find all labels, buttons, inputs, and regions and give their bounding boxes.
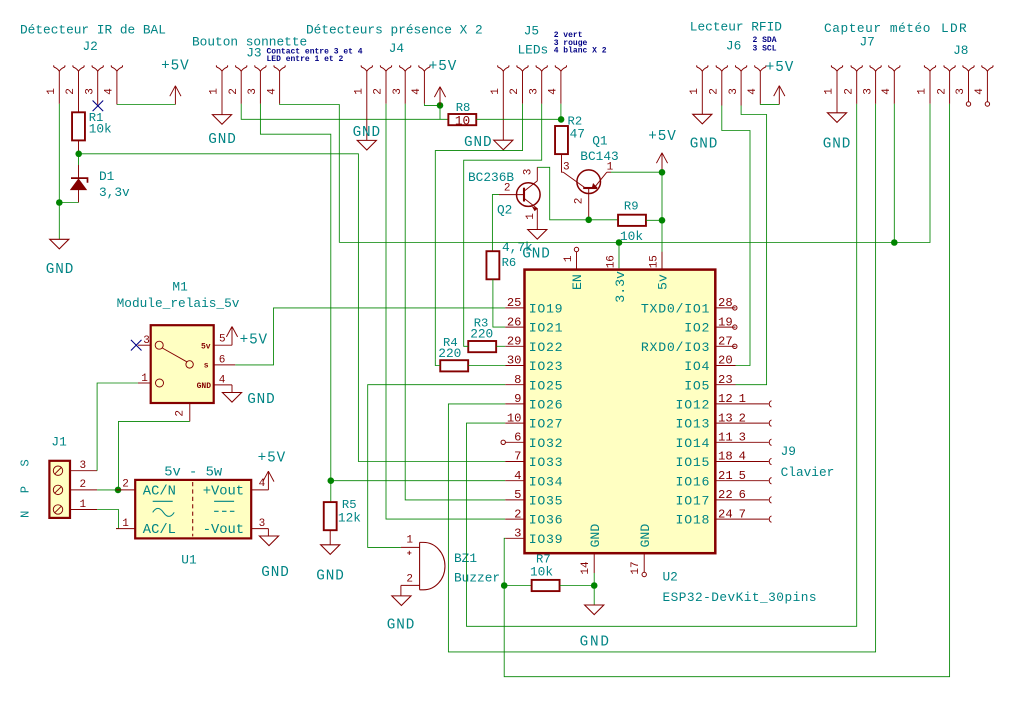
zener diode D1 [71, 154, 88, 203]
svg-text:IO26: IO26 [529, 398, 564, 413]
svg-text:1: 1 [209, 88, 221, 95]
svg-text:IO15: IO15 [676, 455, 711, 470]
svg-text:+5V: +5V [766, 60, 794, 76]
svg-text:2: 2 [406, 573, 413, 585]
pin 13 IO13 right [676, 411, 736, 431]
transistor Q1 BC143 [563, 170, 611, 220]
buzzer BZ1 body [420, 542, 445, 589]
pin labels Q2 [504, 169, 537, 220]
pin M1.5 stub +5V [214, 334, 232, 346]
pin 6 IO32 open circle [501, 440, 505, 444]
svg-text:10k: 10k [620, 229, 643, 244]
svg-text:GND: GND [261, 565, 289, 581]
wire R2 to Q1 collector [562, 154, 564, 172]
svg-text:Buzzer: Buzzer [454, 570, 500, 585]
svg-text:GND: GND [353, 125, 381, 141]
junction IO34/R5 [328, 477, 335, 484]
power +5V at J2 [161, 58, 189, 104]
label GND above J4 triangle [353, 125, 381, 141]
svg-text:19: 19 [718, 315, 733, 329]
wire J2 pin1 down [58, 104, 60, 203]
pin name 3.3v [613, 271, 628, 303]
pin 7 IO33 left [505, 450, 563, 470]
wire junction to R7 [504, 585, 531, 587]
connector J7 pin 2 [843, 65, 862, 104]
wire J4 pin3 to IO35 [405, 104, 505, 500]
wire IO5 to J6 pin3 [736, 106, 767, 385]
screw terminal J1 body [49, 461, 70, 518]
connector J2 pin 4 [104, 65, 123, 104]
svg-text:3: 3 [84, 88, 96, 95]
svg-text:R6: R6 [502, 256, 517, 270]
connector J3 pin 3 [247, 65, 266, 104]
ground Q2 emitter [522, 230, 550, 263]
wire J1.3 to M1.1 [97, 383, 138, 471]
svg-text:GND: GND [387, 618, 415, 634]
svg-text:10: 10 [455, 113, 470, 128]
ground under pin 14 [580, 605, 611, 650]
label Q1 [580, 134, 618, 164]
connector J5 pin 3 [528, 65, 547, 104]
svg-text:+Vout: +Vout [203, 484, 244, 499]
svg-text:GND: GND [580, 634, 611, 650]
junction R1/D1 [75, 151, 82, 158]
wire R8 to junction [476, 118, 561, 120]
ground BZ1.2 [387, 596, 415, 634]
svg-text:14: 14 [580, 561, 592, 575]
pin 28 TXD0/IO1 right [641, 296, 736, 316]
resistor R7 [530, 553, 560, 592]
wire R3 left [464, 342, 469, 347]
wire J4 pin2 to IO36 [386, 104, 505, 519]
svg-text:4: 4 [881, 88, 893, 95]
ground under J5 pin1 [494, 140, 513, 150]
label U1 [181, 553, 197, 568]
wire J3 pin4 to 3.3v bus [280, 104, 340, 243]
svg-text:J9: J9 [781, 444, 796, 459]
note LED entre 1 et 2 [267, 55, 344, 64]
svg-text:5v: 5v [655, 274, 670, 290]
pin 25 IO19 left [505, 296, 563, 316]
svg-text:3: 3 [79, 460, 86, 472]
connector J7 pin 4 [881, 65, 900, 104]
svg-text:3: 3 [563, 162, 570, 174]
ground GND under J2 [46, 239, 74, 278]
pin 12 IO12 right [676, 392, 736, 412]
wire J5 pin2 to R4 [435, 104, 522, 360]
svg-text:AC/N: AC/N [143, 483, 176, 499]
pin 17 GND stub with open end [630, 553, 646, 577]
wire J7 pin4 to 3.3v bus [893, 104, 895, 243]
svg-text:Q2: Q2 [497, 203, 512, 218]
note Contact entre 3 et 4 [267, 47, 363, 56]
pin 29 IO22 left [505, 335, 563, 355]
svg-text:4: 4 [747, 88, 759, 95]
svg-text:15: 15 [649, 255, 661, 268]
wire junction to IO33 column [79, 154, 506, 462]
svg-text:4: 4 [219, 375, 226, 387]
svg-text:27: 27 [718, 335, 733, 349]
svg-text:s: s [204, 362, 209, 371]
connector J2 pin 1 [46, 65, 65, 104]
svg-text:7: 7 [739, 507, 746, 521]
wire Q2 base to R6 [492, 195, 499, 252]
wire +5V rail down to 5v pin [661, 172, 663, 268]
svg-text:2: 2 [514, 507, 521, 521]
pin 26 IO21 left [505, 315, 563, 335]
pin J1.1 stub [70, 499, 97, 511]
connector J2 pin 3 [84, 65, 103, 104]
pin BZ1.1 [401, 535, 420, 559]
power +5V at J4 [429, 59, 457, 106]
svg-text:GND: GND [316, 569, 344, 585]
wire junction down to GND symbol [593, 586, 595, 606]
note 2 vert [554, 31, 583, 40]
pin U1.1 stub [116, 518, 135, 530]
wire bus LDR J8 pin2 to IO39 node [504, 104, 949, 677]
svg-text:2: 2 [843, 88, 855, 95]
pin M1.6 stub [214, 355, 236, 367]
svg-text:J7: J7 [860, 35, 875, 50]
label M1 [117, 280, 240, 312]
wire J6 pin4 to +5V [760, 103, 779, 106]
svg-text:29: 29 [507, 335, 522, 349]
wire J1.1 to U1.1 [97, 510, 118, 529]
J9 pin 5 (ESP32 21) [736, 469, 772, 484]
svg-text:GND: GND [588, 524, 603, 548]
pin 3 IO39 left [505, 527, 563, 547]
wire M1.6 s to IO19 [235, 308, 505, 365]
pin 5 IO35 left [505, 488, 563, 508]
svg-text:J1: J1 [51, 435, 67, 450]
svg-text:4: 4 [411, 88, 423, 95]
pin 27 RXD0/IO3 right [641, 335, 736, 355]
svg-text:GND: GND [197, 382, 212, 391]
svg-text:23: 23 [718, 373, 733, 387]
wire Q1 emitter to +5V rail [611, 171, 662, 173]
label BZ1 [454, 551, 500, 585]
pin 11 IO14 right [676, 431, 736, 451]
svg-text:1: 1 [739, 392, 746, 406]
svg-text:20: 20 [718, 354, 733, 368]
note 3 rouge [554, 39, 588, 48]
connector J5 pin 2 [509, 65, 528, 104]
junction GND pin14 [591, 582, 598, 589]
resistor R4 [438, 336, 468, 372]
svg-text:P: P [19, 486, 33, 493]
svg-text:IO25: IO25 [529, 378, 564, 393]
wire R3 right [496, 345, 505, 347]
power +5V at M1 [226, 327, 268, 349]
svg-text:3: 3 [514, 527, 521, 541]
wire bus IO27 to J7 pin3 [467, 104, 857, 627]
svg-text:3: 3 [862, 88, 874, 95]
svg-text:EN: EN [570, 274, 585, 290]
svg-text:GND: GND [638, 524, 653, 548]
pin U1.4 stub [251, 478, 268, 490]
open circle pin 28 [733, 306, 737, 310]
svg-text:3: 3 [143, 335, 150, 347]
svg-text:6: 6 [514, 431, 521, 445]
svg-text:BC236B: BC236B [468, 170, 514, 185]
open circle pin 27 [733, 344, 737, 348]
J9 pin 3 (ESP32 11) [736, 431, 772, 446]
svg-text:IO19: IO19 [529, 302, 564, 317]
pin BZ1.2 [401, 573, 420, 596]
connector J5 label [524, 24, 539, 39]
svg-text:1: 1 [46, 88, 58, 95]
label Lecteur RFID [690, 19, 782, 34]
svg-text:IO39: IO39 [529, 532, 564, 547]
pin 3.3v number [606, 255, 618, 268]
svg-text:U1: U1 [181, 553, 197, 568]
connector J5 pin 1 [490, 65, 509, 140]
svg-text:3,3v: 3,3v [99, 185, 130, 200]
connector J6 pin 4 [747, 65, 766, 104]
svg-text:RXD0/IO3: RXD0/IO3 [641, 340, 710, 355]
label U2 [663, 569, 817, 605]
connector J3 pin 1 [209, 65, 228, 114]
connector J7 label [860, 35, 875, 50]
transistor Q2 BC236B [499, 167, 540, 229]
connector J4 pin 3 [392, 65, 411, 104]
pin M1.2 stub bottom [174, 403, 190, 421]
svg-text:IO35: IO35 [529, 494, 564, 509]
svg-text:N: N [19, 511, 33, 518]
svg-text:5: 5 [739, 469, 746, 483]
svg-text:2: 2 [709, 88, 721, 95]
pin U1.2 stub [116, 478, 135, 490]
svg-text:3: 3 [739, 431, 746, 445]
label LDR [941, 21, 968, 36]
J9 pin 4 (ESP32 18) [736, 450, 772, 465]
svg-text:3 SCL: 3 SCL [753, 44, 777, 53]
junction buzzer/R7/IO39 [501, 582, 508, 589]
svg-text:J5: J5 [524, 24, 539, 39]
ground J6 pin1 [690, 114, 718, 152]
svg-text:GND: GND [690, 136, 718, 152]
svg-text:U2: U2 [663, 569, 678, 584]
no-connect X on M1 pin3 [131, 340, 142, 351]
connector J4 pin 4 [411, 65, 430, 104]
svg-text:IO2: IO2 [684, 321, 710, 336]
svg-text:3: 3 [728, 88, 740, 95]
svg-text:IO17: IO17 [676, 494, 711, 509]
connector J1 label [51, 435, 67, 450]
svg-text:3: 3 [523, 169, 535, 176]
pin 19 IO2 right [684, 315, 735, 335]
svg-text:17: 17 [630, 561, 642, 574]
connector J4 pin 2 [373, 65, 392, 104]
svg-text:AC/L: AC/L [143, 522, 176, 538]
svg-text:5v - 5w: 5v - 5w [164, 465, 223, 480]
resistor R3 [468, 316, 496, 352]
svg-text:11: 11 [718, 431, 733, 445]
wire pin14 to junction [593, 573, 595, 586]
svg-text:IO5: IO5 [684, 378, 710, 393]
svg-text:24: 24 [718, 507, 733, 521]
svg-text:IO27: IO27 [529, 417, 564, 432]
note 3 SCL [753, 44, 777, 53]
svg-text:3: 3 [955, 88, 967, 95]
ground U1.3 [259, 536, 289, 581]
svg-text:25: 25 [507, 296, 522, 310]
wire J5 pin4 to R8 junction [560, 104, 562, 120]
wire IO4 to J6 pin2 [722, 106, 750, 366]
pin 23 IO5 right [684, 373, 735, 393]
wire down to GND [58, 203, 60, 240]
pin labels Q1 [563, 162, 614, 205]
svg-text:16: 16 [606, 255, 618, 268]
ground under J4 pin1 [357, 140, 376, 150]
resistor R9 [618, 200, 646, 244]
resistor R6 [486, 240, 533, 279]
svg-text:Clavier: Clavier [781, 465, 835, 480]
svg-text:GND: GND [823, 136, 851, 152]
svg-text:3: 3 [259, 518, 266, 530]
svg-text:D1: D1 [99, 169, 115, 184]
connector J3 pin 2 [228, 65, 247, 104]
connector J4 pin 1 [354, 65, 373, 140]
pin name 5v [655, 274, 670, 290]
label Détecteurs présence X 2 [306, 23, 483, 38]
svg-text:5: 5 [514, 488, 521, 502]
svg-text:-Vout: -Vout [203, 523, 244, 538]
svg-text:IO32: IO32 [529, 436, 564, 451]
svg-text:GND: GND [247, 392, 275, 408]
junction Q1 base node [585, 217, 592, 224]
svg-text:13: 13 [718, 411, 733, 425]
svg-text:1: 1 [525, 213, 537, 220]
pin 21 IO16 right [676, 469, 736, 489]
pin 18 IO15 right [676, 450, 736, 470]
svg-text:3: 3 [528, 88, 540, 95]
svg-text:IO21: IO21 [529, 321, 564, 336]
pin M1.4 stub GND [214, 375, 232, 393]
svg-text:J8: J8 [953, 43, 968, 58]
svg-text:47: 47 [570, 127, 585, 142]
open circle pin 19 [733, 325, 737, 329]
svg-text:18: 18 [718, 450, 733, 464]
junction at J2 gnd [56, 199, 63, 206]
pin 30 IO23 left [505, 354, 563, 374]
wire R1 bottom to junction [78, 140, 80, 153]
IC U2 ESP32 body [525, 270, 716, 554]
connector J8 pin 3 [955, 65, 974, 106]
svg-text:BC143: BC143 [580, 149, 618, 164]
svg-text:6: 6 [739, 488, 746, 502]
svg-text:IO36: IO36 [529, 513, 564, 528]
resistor R2 [555, 115, 585, 154]
label Q2 [468, 170, 514, 218]
note 4 blanc X 2 [554, 47, 607, 56]
svg-text:10: 10 [507, 411, 522, 425]
J9 pin 6 (ESP32 22) [736, 488, 772, 503]
svg-text:4: 4 [548, 88, 560, 95]
note 2 SDA [753, 36, 777, 45]
svg-text:2: 2 [373, 88, 385, 95]
svg-text:6: 6 [219, 355, 226, 367]
svg-text:22: 22 [718, 488, 733, 502]
svg-text:Lecteur RFID: Lecteur RFID [690, 19, 782, 34]
svg-text:R9: R9 [624, 200, 639, 214]
svg-text:2: 2 [574, 198, 586, 205]
pin 22 IO17 right [676, 488, 736, 508]
wire junction to R5 [330, 481, 332, 502]
label LEDs [518, 43, 549, 58]
connector J6 label [726, 39, 741, 54]
power +5V rail arrow [648, 129, 676, 172]
svg-text:J6: J6 [726, 39, 741, 54]
connector J2 pin 2 [65, 65, 84, 112]
label N P S [19, 459, 33, 518]
svg-text:Détecteurs présence X 2: Détecteurs présence X 2 [306, 23, 483, 38]
svg-text:3: 3 [392, 88, 404, 95]
power +5V at J6 [766, 60, 794, 104]
J9 pin 7 (ESP32 24) [736, 507, 772, 522]
svg-text:IO18: IO18 [676, 513, 711, 528]
svg-text:9: 9 [514, 392, 521, 406]
svg-text:2: 2 [122, 478, 129, 490]
resistor R5 [324, 498, 362, 530]
svg-text:LED entre 1 et 2: LED entre 1 et 2 [267, 55, 344, 64]
pin name GND 14 [588, 524, 603, 548]
wire IO39 to junction [504, 538, 505, 585]
svg-text:Module_relais_5v: Module_relais_5v [117, 296, 240, 311]
label Bouton sonnette [192, 34, 307, 49]
wire J3 pin3 to IO34 column [260, 104, 330, 481]
svg-text:Q1: Q1 [592, 134, 608, 149]
svg-text:220: 220 [470, 327, 493, 342]
ground J7 pin1 [823, 113, 851, 153]
wire R7 to GND pin14 [560, 585, 594, 587]
svg-text:10k: 10k [89, 122, 112, 137]
junction +5V rail top [659, 169, 666, 176]
svg-text:4: 4 [266, 88, 278, 95]
svg-text:+5V: +5V [240, 332, 268, 348]
wire IO25 to buzzer pin1 [368, 385, 506, 548]
svg-text:1: 1 [563, 255, 575, 262]
connector J6 pin 2 [709, 65, 728, 105]
pin 2 IO36 left [505, 507, 563, 527]
svg-text:IO13: IO13 [676, 417, 711, 432]
connector J6 pin 1 [689, 65, 708, 114]
ground GND under J3 pin1 [208, 115, 236, 148]
wire R6 to IO21 [493, 279, 505, 327]
svg-text:GND: GND [46, 262, 74, 278]
svg-text:IO22: IO22 [529, 340, 564, 355]
J9 pin 1 (ESP32 12) [736, 392, 772, 407]
svg-text:J4: J4 [389, 41, 405, 56]
svg-text:IO4: IO4 [684, 359, 710, 374]
connector J8 pin 1 [917, 65, 936, 104]
svg-text:TXD0/IO1: TXD0/IO1 [641, 302, 710, 317]
connector J7 pin 1 [824, 65, 843, 113]
svg-text:26: 26 [507, 315, 522, 329]
svg-text:IO23: IO23 [529, 359, 564, 374]
svg-text:IO33: IO33 [529, 455, 564, 470]
wire R4 left [435, 360, 440, 366]
svg-text:1: 1 [406, 535, 413, 547]
pin J1.3 stub [70, 460, 97, 472]
svg-text:LDR: LDR [941, 21, 968, 36]
svg-text:1: 1 [917, 88, 929, 95]
no-connect X on J2 pin 3 [93, 101, 104, 112]
svg-text:2: 2 [79, 479, 86, 491]
svg-text:1: 1 [354, 88, 366, 95]
svg-text:12k: 12k [338, 511, 361, 526]
pin 4 IO34 left [505, 469, 563, 489]
